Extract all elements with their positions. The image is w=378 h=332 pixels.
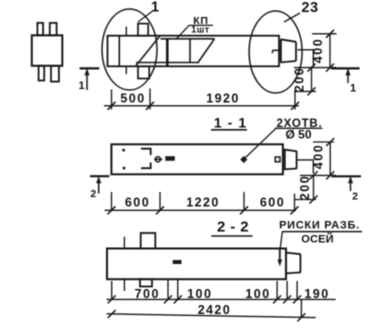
svg-text:600: 600 [260, 195, 285, 209]
svg-text:700: 700 [135, 287, 160, 301]
svg-text:1шт: 1шт [191, 25, 210, 35]
svg-text:500: 500 [120, 92, 145, 106]
svg-text:200: 200 [293, 67, 307, 92]
svg-text:100: 100 [245, 287, 270, 301]
svg-text:Ø 50: Ø 50 [285, 128, 311, 142]
svg-text:РИСКИ РАЗБ.: РИСКИ РАЗБ. [279, 219, 360, 231]
svg-text:2-2: 2-2 [217, 219, 254, 236]
svg-text:ОСЕЙ: ОСЕЙ [301, 232, 334, 245]
svg-text:1220: 1220 [186, 195, 219, 209]
svg-text:1: 1 [350, 83, 356, 95]
svg-text:23: 23 [301, 0, 318, 16]
svg-text:2420: 2420 [198, 303, 231, 317]
svg-text:1: 1 [151, 0, 159, 16]
svg-text:1-1: 1-1 [214, 115, 252, 131]
svg-text:200: 200 [298, 175, 312, 200]
svg-text:1920: 1920 [206, 92, 239, 106]
svg-text:190: 190 [304, 287, 329, 301]
svg-text:600: 600 [125, 195, 150, 209]
svg-text:1: 1 [78, 80, 84, 92]
svg-text:100: 100 [187, 287, 212, 301]
svg-text:2: 2 [352, 191, 358, 203]
svg-text:2: 2 [90, 188, 96, 200]
svg-text:400: 400 [311, 38, 325, 63]
svg-text:400: 400 [312, 144, 326, 169]
